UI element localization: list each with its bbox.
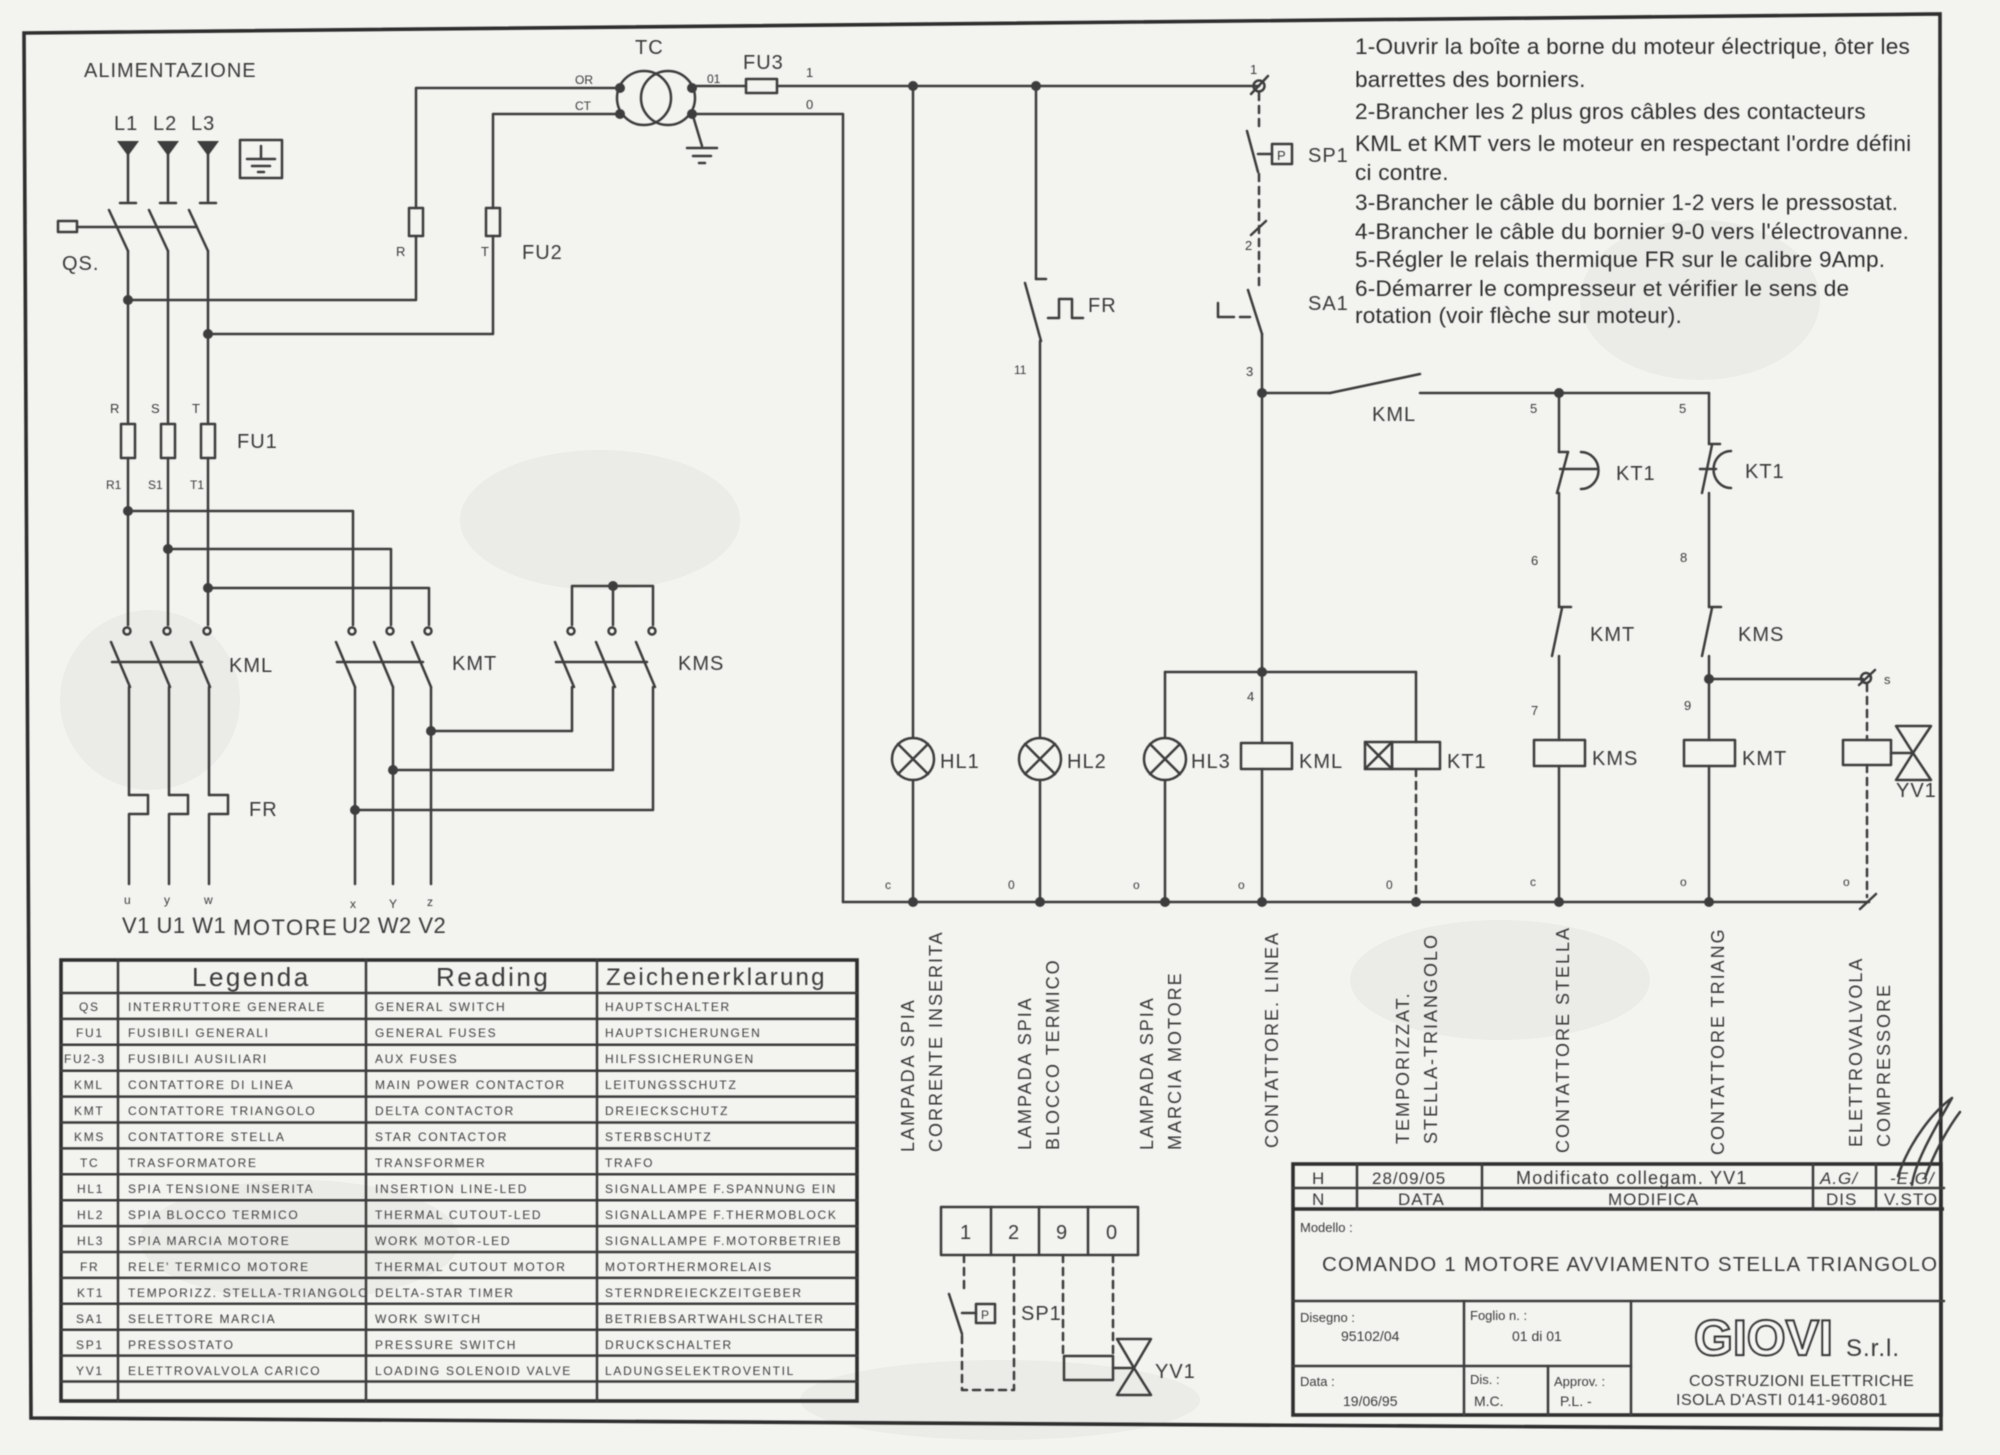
svg-text:KMS: KMS xyxy=(1738,624,1784,646)
svg-text:0: 0 xyxy=(1106,1222,1118,1244)
svg-text:SELETTORE MARCIA: SELETTORE MARCIA xyxy=(128,1312,276,1326)
svg-text:SPIA MARCIA MOTORE: SPIA MARCIA MOTORE xyxy=(128,1234,290,1248)
svg-text:SP1: SP1 xyxy=(76,1338,104,1352)
svg-text:FR: FR xyxy=(1088,295,1117,317)
svg-text:TC: TC xyxy=(80,1156,99,1170)
node R tap xyxy=(123,295,133,305)
svg-text:KMT: KMT xyxy=(74,1104,104,1118)
svg-text:KMT: KMT xyxy=(1742,748,1787,770)
wire KT1NO to KMT aux xyxy=(1558,493,1561,607)
label TEMPORIZZAT STELLA-TRIANGOLO xyxy=(1393,933,1441,1144)
svg-text:Y: Y xyxy=(389,897,397,911)
legend row FU2-3 xyxy=(64,1052,755,1066)
svg-text:ALIMENTAZIONE: ALIMENTAZIONE xyxy=(84,60,257,82)
wire KML3 to FR xyxy=(208,687,211,795)
svg-text:HL3: HL3 xyxy=(77,1234,104,1248)
coil KMS xyxy=(1534,740,1585,766)
svg-text:FU2: FU2 xyxy=(522,242,563,264)
node bus HL3 xyxy=(1160,897,1170,907)
bus 0 xyxy=(843,901,1869,904)
svg-text:SA1: SA1 xyxy=(1308,293,1349,315)
svg-text:S1: S1 xyxy=(148,478,163,492)
contact KMS aux NC xyxy=(1702,607,1721,656)
node branch HL1 xyxy=(908,81,918,91)
svg-text:KMT: KMT xyxy=(452,653,497,675)
node TC secondary bottom xyxy=(687,109,697,119)
PE ground symbol xyxy=(247,146,275,172)
wire TC to FU3 xyxy=(692,85,746,88)
wire KMS coil to bus xyxy=(1558,766,1561,902)
pressure switch SP1 detail xyxy=(949,1294,995,1334)
svg-text:R: R xyxy=(110,401,119,416)
svg-text:0: 0 xyxy=(806,97,813,112)
feeder arrow L1 xyxy=(117,141,139,156)
svg-text:HL2: HL2 xyxy=(77,1208,104,1222)
node bus KMS xyxy=(1554,897,1564,907)
wire SP1 to SA1 dashed xyxy=(1258,174,1261,288)
contactor KMT pole3 xyxy=(412,628,432,688)
svg-text:KMS: KMS xyxy=(74,1130,105,1144)
wire L3 drop xyxy=(200,153,216,203)
svg-text:LEITUNGSSCHUTZ: LEITUNGSSCHUTZ xyxy=(605,1078,737,1092)
wire KT1 coil feed xyxy=(1415,672,1418,742)
svg-text:KT1: KT1 xyxy=(1616,463,1656,485)
svg-text:CONTATTORE STELLA: CONTATTORE STELLA xyxy=(1553,926,1573,1153)
svg-text:L3: L3 xyxy=(191,113,215,135)
valve YV1 detail xyxy=(1117,1339,1151,1395)
wire SP1 loop dashed xyxy=(962,1255,1014,1390)
node bus HL2 xyxy=(1035,897,1045,907)
legend row YV1 xyxy=(76,1364,795,1378)
svg-text:CONTATTORE DI LINEA: CONTATTORE DI LINEA xyxy=(128,1078,294,1092)
wire branch HL1 xyxy=(912,86,915,902)
KMS linkage bar xyxy=(556,661,647,664)
svg-text:MOTORE: MOTORE xyxy=(233,915,338,940)
svg-text:L2: L2 xyxy=(153,113,177,135)
contact KT1 NC delayed xyxy=(1700,444,1731,493)
svg-text:z: z xyxy=(427,895,433,909)
svg-text:SP1: SP1 xyxy=(1308,145,1349,167)
svg-text:ELETTROVALVOLA CARICO: ELETTROVALVOLA CARICO xyxy=(128,1364,321,1378)
feeder arrow L3 xyxy=(197,141,219,156)
wire KMT aux to KMS coil xyxy=(1558,656,1561,740)
contactor KMT pole1 xyxy=(336,628,356,688)
PE terminal box xyxy=(240,140,282,178)
svg-text:FUSIBILI GENERALI: FUSIBILI GENERALI xyxy=(128,1026,270,1040)
svg-text:1-Ouvrir la boîte a borne du m: 1-Ouvrir la boîte a borne du moteur élec… xyxy=(1355,34,1910,59)
wire 0 rail xyxy=(692,114,843,902)
wire branch HL3 xyxy=(1164,672,1167,902)
svg-text:KMT: KMT xyxy=(1590,624,1635,646)
wire FU1-S down to KML xyxy=(167,458,170,625)
terminal slash bus end xyxy=(1860,894,1876,909)
node 5 branch KMS xyxy=(1554,388,1564,398)
svg-text:LAMPADA SPIA: LAMPADA SPIA xyxy=(898,998,918,1152)
svg-text:Approv. :: Approv. : xyxy=(1554,1374,1605,1389)
contact KMT aux NC xyxy=(1552,607,1571,656)
label LAMPADA SPIA CORRENTE INSERITA xyxy=(898,930,946,1152)
svg-text:c: c xyxy=(885,878,891,892)
node TC primary bottom xyxy=(615,109,625,119)
legend row HL3 xyxy=(77,1234,842,1248)
svg-text:4: 4 xyxy=(1247,689,1254,704)
node 4 rail xyxy=(1257,667,1267,677)
svg-text:V1 U1 W1: V1 U1 W1 xyxy=(122,913,226,938)
wire FU2-T to TC primary xyxy=(493,114,619,208)
svg-text:COSTRUZIONI ELETTRICHE: COSTRUZIONI ELETTRICHE xyxy=(1689,1373,1914,1390)
svg-text:1: 1 xyxy=(806,65,813,80)
terminal strip 1-2-9-0 xyxy=(941,1207,1138,1255)
svg-text:FU1: FU1 xyxy=(237,431,278,453)
contactor KMS pole1 xyxy=(555,628,575,688)
wire node3 down xyxy=(1261,393,1264,672)
svg-text:u: u xyxy=(124,893,131,907)
wire FU1-R down to KML xyxy=(127,458,130,625)
svg-text:Zeichenerklarung: Zeichenerklarung xyxy=(606,964,827,991)
contactor KMT pole2 xyxy=(374,628,394,688)
switch QS pole 2 xyxy=(149,210,168,251)
svg-text:R: R xyxy=(396,244,405,259)
svg-text:TRANSFORMER: TRANSFORMER xyxy=(375,1156,486,1170)
svg-text:CT: CT xyxy=(575,99,592,113)
svg-text:Foglio n. :: Foglio n. : xyxy=(1470,1308,1527,1323)
svg-text:YV1: YV1 xyxy=(76,1364,104,1378)
svg-text:o: o xyxy=(1680,875,1687,889)
svg-text:CONTATTORE STELLA: CONTATTORE STELLA xyxy=(128,1130,286,1144)
terminal 2 slash xyxy=(1251,221,1266,235)
contactor KMS pole3 xyxy=(636,628,656,688)
svg-text:HL3: HL3 xyxy=(1191,751,1231,773)
wire corner branch KMT xyxy=(1708,393,1711,444)
node TC secondary top xyxy=(687,83,697,93)
svg-text:8: 8 xyxy=(1680,550,1687,565)
legend row KMS xyxy=(74,1130,712,1144)
node TC primary top xyxy=(615,83,625,93)
svg-text:L1: L1 xyxy=(114,113,138,135)
node bus KML xyxy=(1257,897,1267,907)
svg-text:KT1: KT1 xyxy=(77,1286,104,1300)
fuse FU3 xyxy=(746,79,777,93)
svg-text:9: 9 xyxy=(1684,698,1691,713)
wire KML coil feed xyxy=(1261,672,1264,743)
KMT linkage bar xyxy=(337,661,423,664)
svg-text:INSERTION LINE-LED: INSERTION LINE-LED xyxy=(375,1182,528,1196)
fuse FU1-R xyxy=(121,424,135,458)
svg-text:3: 3 xyxy=(1246,364,1253,379)
svg-text:KT1: KT1 xyxy=(1447,751,1487,773)
svg-text:o: o xyxy=(1133,878,1140,892)
contact KML aux NO xyxy=(1330,374,1420,393)
wire KML coil to bus xyxy=(1261,769,1264,902)
svg-text:SPIA BLOCCO TERMICO: SPIA BLOCCO TERMICO xyxy=(128,1208,299,1222)
wire T tap to FU2-T xyxy=(208,236,493,334)
switch QS pole 1 xyxy=(109,210,128,251)
thermal relay FR heater2 xyxy=(169,795,188,884)
svg-text:x: x xyxy=(350,897,356,911)
svg-text:BETRIEBSARTWAHLSCHALTER: BETRIEBSARTWAHLSCHALTER xyxy=(605,1312,825,1326)
pressure switch SP1 xyxy=(1247,131,1292,172)
svg-text:SIGNALLAMPE F.THERMOBLOCK: SIGNALLAMPE F.THERMOBLOCK xyxy=(605,1208,838,1222)
svg-text:TRASFORMATORE: TRASFORMATORE xyxy=(128,1156,258,1170)
svg-text:STERNDREIECKZEITGEBER: STERNDREIECKZEITGEBER xyxy=(605,1286,803,1300)
svg-text:4-Brancher le câble du bornier: 4-Brancher le câble du bornier 9-0 vers … xyxy=(1355,219,1909,244)
svg-text:KT1: KT1 xyxy=(1745,461,1785,483)
svg-text:5: 5 xyxy=(1679,401,1686,416)
node KMT3-KMS1 xyxy=(426,726,436,736)
switch QS pole 3 xyxy=(189,210,208,251)
svg-text:KML: KML xyxy=(1372,404,1416,426)
wire KMT3 to KMS1 xyxy=(431,687,572,731)
svg-text:WORK MOTOR-LED: WORK MOTOR-LED xyxy=(375,1234,511,1248)
svg-text:GIOVI: GIOVI xyxy=(1694,1310,1833,1366)
svg-text:V.STO: V.STO xyxy=(1884,1190,1938,1209)
thermal relay FR heater1 xyxy=(129,795,148,884)
svg-text:AUX FUSES: AUX FUSES xyxy=(375,1052,458,1066)
svg-text:CORRENTE INSERITA: CORRENTE INSERITA xyxy=(926,930,946,1152)
node T tap xyxy=(203,329,213,339)
wire branch KMS upper xyxy=(1558,393,1561,452)
svg-text:LADUNGSELEKTROVENTIL: LADUNGSELEKTROVENTIL xyxy=(605,1364,795,1378)
svg-text:YV1: YV1 xyxy=(1155,1361,1196,1383)
svg-text:FUSIBILI AUSILIARI: FUSIBILI AUSILIARI xyxy=(128,1052,268,1066)
svg-text:19/06/95: 19/06/95 xyxy=(1343,1393,1398,1409)
wire branch HL2 upper xyxy=(1035,86,1038,279)
label LAMPADA SPIA BLOCCO TERMICO xyxy=(1015,958,1063,1150)
svg-text:HAUPTSICHERUNGEN: HAUPTSICHERUNGEN xyxy=(605,1026,762,1040)
legend row HL1 xyxy=(77,1182,837,1196)
fuse FU1-S xyxy=(161,424,175,458)
svg-text:11: 11 xyxy=(1014,363,1027,377)
wire KMT1 to KMS3 xyxy=(355,687,653,810)
svg-text:CONTATTORE TRIANG: CONTATTORE TRIANG xyxy=(1708,927,1728,1155)
svg-text:28/09/05: 28/09/05 xyxy=(1372,1169,1446,1188)
svg-text:KML et KMT vers le moteur en r: KML et KMT vers le moteur en respectant … xyxy=(1355,131,1911,156)
svg-text:ci contre.: ci contre. xyxy=(1355,160,1449,185)
svg-text:2-Brancher les 2 plus gros câb: 2-Brancher les 2 plus gros câbles des co… xyxy=(1355,99,1866,124)
timer coil KT1 xyxy=(1365,742,1440,769)
svg-text:Reading: Reading xyxy=(436,962,550,992)
wire YV1 upper dashed xyxy=(1866,684,1869,740)
svg-text:MARCIA MOTORE: MARCIA MOTORE xyxy=(1165,971,1185,1150)
wire L2 drop xyxy=(160,153,176,203)
svg-text:GENERAL FUSES: GENERAL FUSES xyxy=(375,1026,497,1040)
svg-text:DATA: DATA xyxy=(1398,1190,1445,1209)
svg-text:HILFSSICHERUNGEN: HILFSSICHERUNGEN xyxy=(605,1052,755,1066)
wire aux rail left xyxy=(1262,392,1330,395)
svg-text:KML: KML xyxy=(1299,751,1343,773)
svg-text:01 di 01: 01 di 01 xyxy=(1512,1328,1562,1344)
svg-text:Dis. :: Dis. : xyxy=(1470,1372,1500,1387)
wire KMT2 to KMS2 xyxy=(393,687,613,770)
svg-text:P: P xyxy=(981,1308,989,1322)
wire L1 drop xyxy=(120,153,136,203)
svg-text:YV1: YV1 xyxy=(1896,780,1937,802)
node R1 tap xyxy=(123,506,133,516)
legend row SA1 xyxy=(76,1312,825,1326)
lamp HL2 xyxy=(1019,738,1061,780)
svg-text:SIGNALLAMPE F.MOTORBETRIEB: SIGNALLAMPE F.MOTORBETRIEB xyxy=(605,1234,842,1248)
wire KMS aux down xyxy=(1708,656,1711,740)
svg-text:2: 2 xyxy=(1245,238,1252,253)
svg-text:QS.: QS. xyxy=(62,253,99,275)
svg-text:7: 7 xyxy=(1531,703,1538,718)
svg-text:Modificato collegam. YV1: Modificato collegam. YV1 xyxy=(1516,1168,1748,1188)
svg-text:95102/04: 95102/04 xyxy=(1341,1328,1400,1344)
svg-text:QS: QS xyxy=(79,1000,100,1014)
svg-text:0: 0 xyxy=(1008,878,1015,892)
svg-text:SIGNALLAMPE F.SPANNUNG EIN: SIGNALLAMPE F.SPANNUNG EIN xyxy=(605,1182,837,1196)
coil KML xyxy=(1241,743,1292,769)
legend row TC xyxy=(80,1156,654,1170)
wire KT1NC to KMS aux xyxy=(1708,493,1711,607)
svg-text:9: 9 xyxy=(1056,1222,1068,1244)
wire R1 tap to KMT pole1 xyxy=(128,511,353,625)
svg-text:T: T xyxy=(481,244,489,259)
svg-text:R1: R1 xyxy=(106,478,122,492)
svg-text:rotation (voir flèche sur mote: rotation (voir flèche sur moteur). xyxy=(1355,303,1682,328)
svg-text:0: 0 xyxy=(1386,878,1393,892)
svg-text:SP1: SP1 xyxy=(1021,1303,1062,1325)
svg-text:A.G/: A.G/ xyxy=(1819,1169,1859,1188)
terminal s slash xyxy=(1859,670,1875,685)
wire YV1 to valve xyxy=(1891,752,1913,755)
wire aux rail right xyxy=(1420,392,1709,395)
svg-text:M.C.: M.C. xyxy=(1474,1393,1504,1409)
wire KMT1 down xyxy=(354,687,357,884)
svg-text:KML: KML xyxy=(229,655,273,677)
wire S1 tap to KMT pole2 xyxy=(168,549,391,625)
star bridge KMS xyxy=(572,586,653,625)
svg-text:6: 6 xyxy=(1531,553,1538,568)
wire R tap to FU2-R xyxy=(128,236,416,300)
contactor KMS pole2 xyxy=(596,628,616,688)
solenoid YV1 coil xyxy=(1843,740,1891,765)
contactor KML pole3 xyxy=(191,628,211,688)
svg-text:Data :: Data : xyxy=(1300,1374,1335,1389)
TC earth lead xyxy=(693,116,702,146)
wire strip0 to YV1 dashed xyxy=(1112,1255,1115,1356)
svg-text:U2 W2 V2: U2 W2 V2 xyxy=(342,913,446,938)
svg-text:MODIFICA: MODIFICA xyxy=(1608,1190,1699,1209)
label ELETTROVALVOLA COMPRESSORE xyxy=(1846,957,1894,1147)
node branch HL2 xyxy=(1031,81,1041,91)
legend row KT1 xyxy=(77,1286,803,1300)
fuse FU2-T xyxy=(486,208,500,236)
svg-text:DELTA CONTACTOR: DELTA CONTACTOR xyxy=(375,1104,515,1118)
svg-text:Disegno :: Disegno : xyxy=(1300,1310,1355,1325)
signature flourish xyxy=(1898,1098,1960,1185)
svg-text:c: c xyxy=(1530,875,1536,889)
title block grid xyxy=(1293,1164,1944,1415)
svg-text:RELE' TERMICO MOTORE: RELE' TERMICO MOTORE xyxy=(128,1260,310,1274)
svg-text:PRESSURE SWITCH: PRESSURE SWITCH xyxy=(375,1338,517,1352)
svg-text:KMS: KMS xyxy=(678,653,724,675)
wire KML2 to FR xyxy=(168,687,171,795)
FR heater symbol xyxy=(1048,299,1083,318)
svg-text:BLOCCO TERMICO: BLOCCO TERMICO xyxy=(1043,958,1063,1150)
svg-text:o: o xyxy=(1238,878,1245,892)
svg-text:DREIECKSCHUTZ: DREIECKSCHUTZ xyxy=(605,1104,729,1118)
svg-text:H: H xyxy=(1312,1169,1325,1188)
wire strip1 to SP1 dashed xyxy=(963,1255,966,1292)
svg-text:S: S xyxy=(151,401,160,416)
selector switch SA1 xyxy=(1218,290,1262,334)
svg-text:THERMAL CUTOUT MOTOR: THERMAL CUTOUT MOTOR xyxy=(375,1260,567,1274)
node star point xyxy=(608,581,618,591)
wire YV1 lower dashed xyxy=(1866,765,1869,897)
label LAMPADA SPIA MARCIA MOTORE xyxy=(1137,971,1185,1150)
fuse FU2-R xyxy=(409,208,423,236)
svg-text:THERMAL CUTOUT-LED: THERMAL CUTOUT-LED xyxy=(375,1208,542,1222)
wire FU1-T down to KML xyxy=(207,458,210,625)
node bus KMT xyxy=(1704,897,1714,907)
wire KT1 coil to bus dashed xyxy=(1415,769,1418,902)
svg-text:KML: KML xyxy=(74,1078,104,1092)
svg-text:HL1: HL1 xyxy=(940,751,980,773)
svg-text:5: 5 xyxy=(1530,401,1537,416)
svg-text:HL2: HL2 xyxy=(1067,751,1107,773)
wire SA1 to node3 xyxy=(1261,334,1264,393)
fuse FU1-T xyxy=(201,424,215,458)
wire QS1 to FU1-R xyxy=(127,251,130,424)
QS handle xyxy=(58,221,77,232)
svg-text:6-Démarrer le compresseur et v: 6-Démarrer le compresseur et vérifier le… xyxy=(1355,276,1849,301)
svg-text:LOADING SOLENOID VALVE: LOADING SOLENOID VALVE xyxy=(375,1364,572,1378)
svg-text:DRUCKSCHALTER: DRUCKSCHALTER xyxy=(605,1338,733,1352)
svg-text:ELETTROVALVOLA: ELETTROVALVOLA xyxy=(1846,957,1866,1147)
node bus KT1 xyxy=(1411,897,1421,907)
svg-text:P.L. -: P.L. - xyxy=(1560,1393,1592,1409)
svg-text:01: 01 xyxy=(707,72,721,86)
node T1 tap xyxy=(203,583,213,593)
wire 1 rail xyxy=(777,85,1259,88)
svg-text:o: o xyxy=(1843,875,1850,889)
solenoid valve YV1 detail coil xyxy=(1064,1356,1113,1380)
svg-text:N: N xyxy=(1312,1190,1325,1209)
contact FR NC xyxy=(1025,279,1046,341)
svg-text:Legenda: Legenda xyxy=(192,962,311,992)
KML linkage bar xyxy=(112,661,202,664)
legend row KMT xyxy=(74,1104,729,1118)
lamp HL3 xyxy=(1144,738,1186,780)
svg-text:SPIA TENSIONE INSERITA: SPIA TENSIONE INSERITA xyxy=(128,1182,314,1196)
svg-text:MAIN POWER CONTACTOR: MAIN POWER CONTACTOR xyxy=(375,1078,566,1092)
svg-text:INTERRUTTORE GENERALE: INTERRUTTORE GENERALE xyxy=(128,1000,326,1014)
svg-text:TC: TC xyxy=(635,37,664,59)
node KMT2-KMS2 xyxy=(388,765,398,775)
contactor KML pole2 xyxy=(151,628,171,688)
svg-text:HL1: HL1 xyxy=(77,1182,104,1196)
svg-text:COMANDO 1 MOTORE AVVIAMENTO ST: COMANDO 1 MOTORE AVVIAMENTO STELLA TRIAN… xyxy=(1322,1253,1938,1276)
svg-text:WORK SWITCH: WORK SWITCH xyxy=(375,1312,482,1326)
svg-text:CONTATTORE TRIANGOLO: CONTATTORE TRIANGOLO xyxy=(128,1104,316,1118)
legend row FR xyxy=(80,1260,773,1274)
wire KML1 to FR xyxy=(128,687,131,795)
valve YV1 xyxy=(1896,726,1931,780)
svg-text:STERBSCHUTZ: STERBSCHUTZ xyxy=(605,1130,712,1144)
wire QS2 to FU1-S xyxy=(167,251,170,424)
svg-text:FR: FR xyxy=(249,799,278,821)
node S1 tap xyxy=(163,544,173,554)
contactor KML pole1 xyxy=(111,628,131,688)
QS linkage bar xyxy=(77,226,196,229)
svg-text:TEMPORIZZAT.: TEMPORIZZAT. xyxy=(1393,991,1413,1144)
svg-text:1: 1 xyxy=(1250,62,1257,77)
svg-text:5-Régler le relais thermique F: 5-Régler le relais thermique FR sur le c… xyxy=(1355,247,1885,272)
svg-text:Modello :: Modello : xyxy=(1300,1220,1353,1235)
svg-text:DELTA-STAR TIMER: DELTA-STAR TIMER xyxy=(375,1286,515,1300)
node 3 xyxy=(1257,388,1267,398)
